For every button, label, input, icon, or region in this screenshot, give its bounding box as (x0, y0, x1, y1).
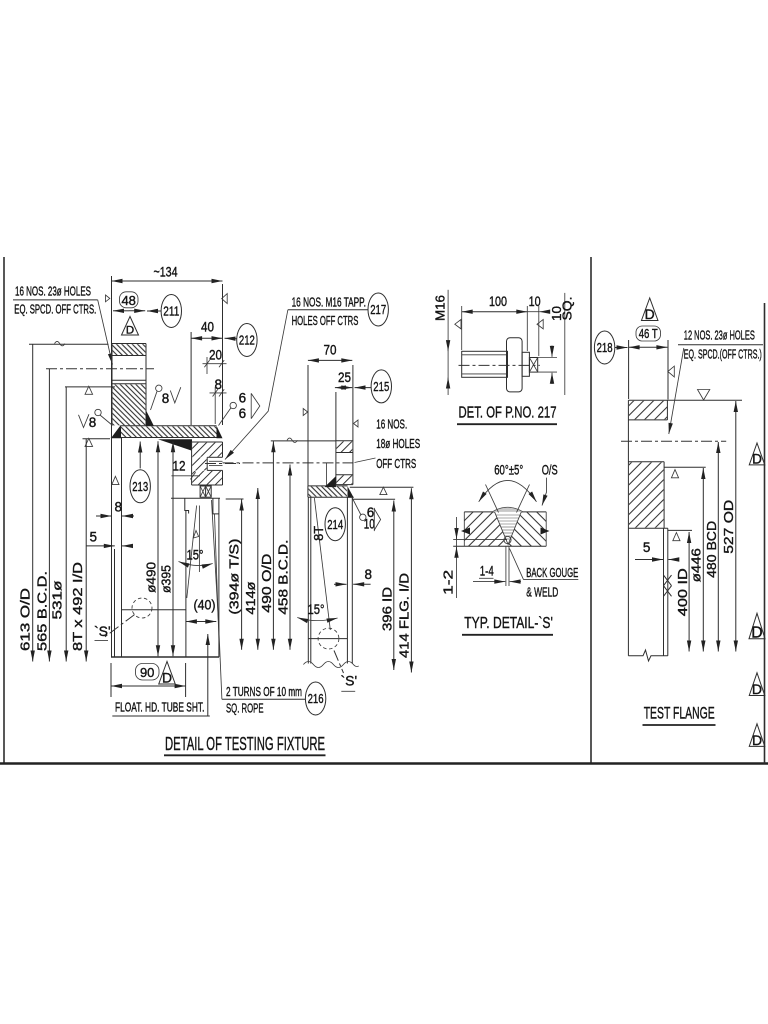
svg-text:16 NOS. 23ø HOLES: 16 NOS. 23ø HOLES (15, 284, 91, 299)
svg-text:400 ID: 400 ID (675, 568, 690, 616)
svg-text:5: 5 (643, 540, 651, 555)
svg-text:12 NOS. 23ø HOLES: 12 NOS. 23ø HOLES (684, 328, 755, 343)
svg-text:527 OD: 527 OD (721, 500, 736, 554)
svg-text:ø490: ø490 (143, 562, 158, 593)
svg-text:480 BCD: 480 BCD (704, 521, 719, 578)
svg-text:8T: 8T (311, 526, 326, 541)
svg-text:HOLES OFF CTRS: HOLES OFF CTRS (292, 313, 359, 328)
svg-text:8: 8 (365, 567, 373, 582)
svg-text:12: 12 (173, 459, 186, 474)
svg-text:D: D (162, 670, 172, 686)
svg-text:1-4: 1-4 (480, 564, 494, 579)
svg-text:D: D (645, 306, 655, 322)
svg-text:90: 90 (140, 665, 154, 680)
svg-text:SQ. ROPE: SQ. ROPE (226, 701, 264, 716)
svg-text:`S': `S' (94, 623, 111, 639)
svg-text:216: 216 (308, 691, 324, 706)
svg-text:212: 212 (239, 333, 255, 348)
svg-text:16 NOS.: 16 NOS. (376, 417, 407, 432)
svg-text:DET. OF P.NO. 217: DET. OF P.NO. 217 (459, 404, 557, 421)
svg-text:DETAIL OF TESTING FIXTURE: DETAIL OF TESTING FIXTURE (165, 733, 325, 754)
svg-text:D: D (752, 681, 762, 697)
svg-text:213: 213 (132, 479, 148, 494)
svg-text:8: 8 (115, 500, 123, 515)
svg-text:SQ.: SQ. (560, 297, 575, 321)
svg-text:~134: ~134 (154, 265, 178, 280)
svg-text:15°: 15° (187, 548, 204, 563)
svg-text:EQ. SPCD.(OFF CTRS.): EQ. SPCD.(OFF CTRS.) (684, 347, 762, 362)
svg-text:1-2: 1-2 (440, 570, 455, 595)
svg-text:46 T: 46 T (639, 327, 658, 341)
svg-text:M16: M16 (433, 295, 448, 321)
svg-text:70: 70 (324, 343, 337, 358)
svg-text:8: 8 (89, 415, 97, 430)
svg-text:D: D (751, 624, 762, 641)
svg-text:TEST FLANGE: TEST FLANGE (644, 703, 715, 722)
svg-text:20: 20 (209, 348, 222, 363)
svg-text:(40): (40) (194, 598, 216, 613)
svg-text:5: 5 (90, 530, 98, 545)
svg-text:613 O/D: 613 O/D (17, 588, 32, 651)
svg-text:396 ID: 396 ID (379, 587, 394, 631)
svg-text:D: D (752, 451, 762, 466)
svg-text:458 B.C.D.: 458 B.C.D. (276, 540, 291, 615)
svg-text:48: 48 (121, 293, 135, 308)
svg-text:TYP. DETAIL-`S': TYP. DETAIL-`S' (464, 615, 553, 632)
svg-text:211: 211 (163, 304, 179, 319)
svg-text:2 TURNS OF 10 mm: 2 TURNS OF 10 mm (226, 684, 302, 699)
svg-text:414 FLG. I/D: 414 FLG. I/D (397, 573, 412, 658)
svg-text:& WELD: & WELD (526, 584, 558, 599)
svg-text:40: 40 (201, 320, 214, 335)
svg-text:214: 214 (327, 517, 343, 532)
svg-text:D: D (752, 732, 762, 748)
svg-text:O/S: O/S (542, 463, 558, 478)
svg-text:18ø HOLES: 18ø HOLES (376, 436, 420, 451)
svg-text:60°±5°: 60°±5° (494, 463, 523, 478)
svg-text:8: 8 (215, 377, 223, 392)
svg-text:6: 6 (239, 391, 247, 406)
svg-text:531ø: 531ø (50, 580, 65, 619)
svg-text:EQ. SPCD. OFF CTRS.: EQ. SPCD. OFF CTRS. (14, 302, 96, 317)
svg-text:`S': `S' (341, 673, 358, 689)
svg-text:8: 8 (162, 391, 170, 406)
svg-text:6: 6 (239, 406, 247, 421)
svg-text:217: 217 (370, 302, 386, 317)
svg-text:16 NOS. M16 TAPP.: 16 NOS. M16 TAPP. (292, 295, 366, 310)
svg-text:8T x 492 I/D: 8T x 492 I/D (70, 562, 85, 651)
svg-text:FLOAT. HD. TUBE SHT.: FLOAT. HD. TUBE SHT. (115, 700, 204, 715)
svg-text:414ø: 414ø (243, 582, 258, 615)
svg-text:490 O/D: 490 O/D (259, 554, 274, 613)
svg-text:BACK GOUGE: BACK GOUGE (526, 565, 578, 580)
svg-text:15°: 15° (308, 602, 325, 617)
svg-text:ø446: ø446 (689, 548, 704, 582)
svg-text:10: 10 (364, 517, 375, 532)
svg-text:215: 215 (373, 379, 389, 394)
svg-text:OFF CTRS: OFF CTRS (376, 456, 416, 471)
svg-text:565 B.C.D.: 565 B.C.D. (34, 571, 49, 651)
svg-text:(394ø T/S): (394ø T/S) (227, 539, 242, 615)
svg-text:218: 218 (597, 340, 613, 355)
svg-text:ø395: ø395 (159, 565, 174, 593)
svg-text:D: D (126, 325, 134, 337)
svg-text:25: 25 (338, 370, 351, 385)
svg-text:100: 100 (489, 294, 507, 309)
